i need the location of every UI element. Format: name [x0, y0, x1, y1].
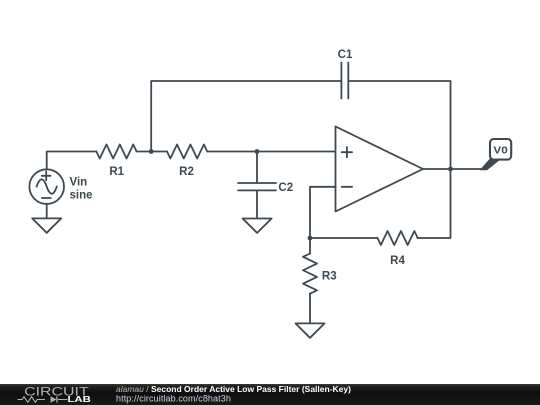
logo resistor zigzag and diode: [18, 396, 68, 402]
svg-text:R3: R3: [322, 271, 337, 283]
capacitor C1 plates: [341, 63, 348, 99]
wire C1 to feedback vertical: [348, 81, 450, 238]
ground below source: [32, 218, 61, 232]
node D junction dot: [308, 236, 313, 241]
svg-text:http://circuitlab.com/c8hat3h: http://circuitlab.com/c8hat3h: [116, 394, 231, 404]
wire op-amp output to V0: [423, 168, 485, 170]
voltage source V1 circle: [29, 169, 64, 204]
wire node D down to R3: [309, 238, 311, 254]
logo diode triangle: [51, 396, 57, 402]
svg-text:C1: C1: [338, 49, 353, 61]
op-amp plus mark: [342, 147, 352, 157]
wire R3 to ground: [309, 294, 311, 324]
wire C2 to ground: [256, 190, 258, 218]
wire C2 branch from node B: [256, 152, 258, 184]
capacitor C2 plates: [238, 183, 276, 190]
svg-text:C2: C2: [278, 182, 293, 194]
node C output junction dot: [448, 167, 453, 172]
svg-text:R2: R2: [179, 166, 194, 178]
wire source top to R1: [47, 152, 97, 170]
svg-text:sine: sine: [70, 189, 93, 201]
voltage source minus mark: [42, 197, 51, 199]
resistor R1: [96, 145, 136, 159]
footer bar: [0, 384, 540, 405]
node B junction dot: [255, 149, 260, 154]
svg-text:LAB: LAB: [68, 394, 91, 404]
svg-text:alamau / Second Order Active L: alamau / Second Order Active Low Pass Fi…: [116, 384, 351, 394]
wire source bottom to ground: [46, 204, 48, 219]
wire R2 to op-amp plus input: [207, 151, 335, 153]
op-amp minus mark: [342, 186, 352, 188]
wire R1 to node A: [137, 151, 167, 153]
net flag V0 box: [490, 139, 511, 160]
resistor R2: [167, 145, 207, 159]
resistor R4: [378, 231, 418, 245]
svg-text:R1: R1: [109, 166, 124, 178]
svg-text:R4: R4: [390, 255, 405, 267]
svg-text:V0: V0: [493, 145, 507, 157]
voltage source sine symbol: [37, 179, 57, 193]
ground below C2: [243, 219, 272, 233]
wire node A up to C1 branch: [151, 81, 341, 152]
net flag V0 tail: [480, 159, 502, 171]
voltage source plus mark: [42, 171, 51, 180]
op-amp U1 triangle: [336, 127, 424, 212]
node A junction dot: [149, 149, 154, 154]
svg-text:Vin: Vin: [70, 177, 88, 189]
resistor R3: [303, 254, 317, 294]
wire node D to op-amp minus input: [310, 187, 336, 238]
wire R4 to node D: [310, 237, 378, 239]
ground below R3: [296, 323, 325, 337]
